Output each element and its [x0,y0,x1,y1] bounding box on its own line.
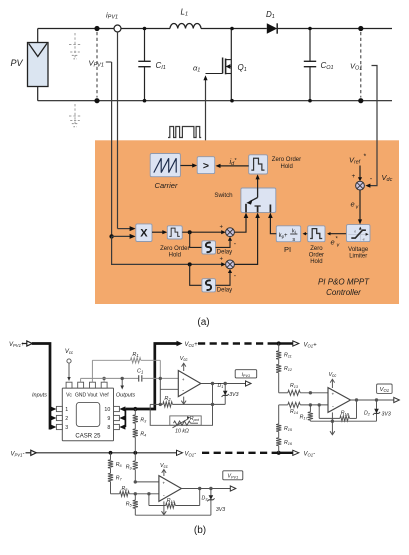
wire V_O1+ dashed bus [198,342,293,344]
node feedback left [159,403,162,406]
pin Vc [66,382,72,398]
block Delay1 [202,241,216,254]
wire R1 row corner down [159,360,161,378]
V_O1 sense dashed line [360,32,362,98]
svg-text:VO1-: VO1- [185,451,197,457]
wire i_PV1 sense to controller [118,32,136,231]
svg-text:L1: L1 [181,8,189,18]
svg-text:R6: R6 [116,462,123,468]
wire U2 bottom rail [310,420,376,423]
svg-text:R13: R13 [290,383,299,389]
svg-text:2: 2 [65,416,68,422]
label 3V3 D1 [229,392,238,398]
wire sum1 to switch [234,213,248,233]
label D2 [364,410,371,416]
svg-text:Hold: Hold [169,253,181,259]
resistor R5 [133,494,138,515]
wire to Delay1 [190,232,202,247]
terminal V_PV1+ [9,341,32,348]
op-amp U2 [328,388,351,413]
svg-text:Delay: Delay [217,249,232,255]
svg-text:+: + [220,225,224,231]
terminal V_PV1- [11,450,37,457]
label (b) [194,525,206,536]
svg-text:VO1: VO1 [380,387,389,393]
svg-text:VPV1-: VPV1- [11,451,25,457]
op-amp U1 [178,371,201,397]
Vcc supply circle (CASR) [65,349,74,381]
ground U1 [181,397,186,405]
svg-text:D2: D2 [364,410,371,416]
sum junction sum1 [226,228,235,237]
wire Delay1 to sum1 [216,237,233,248]
node top-right junction [358,26,363,31]
svg-text:R5: R5 [126,502,133,508]
label C1 [137,369,143,375]
PV module PV [11,43,49,87]
label CASR 25 [75,434,101,440]
label Voltage Limiter [348,247,369,260]
svg-text:R7: R7 [116,476,123,482]
label R16 [284,440,293,446]
wire switch to ZOH1 [256,174,260,188]
label Vdc [382,173,393,183]
wire to Delay2 [190,264,202,285]
block multiplier X [136,224,152,242]
label D1 [266,10,275,20]
wire carrier to comparator [180,163,197,167]
svg-text:*: * [364,154,367,161]
label R6 [116,462,123,468]
current sensor i_PV1 [114,25,121,32]
svg-text:8: 8 [107,425,110,431]
resistor R7 [108,473,113,494]
resistor R12 [276,364,281,392]
wire sum2 to switch [234,213,260,265]
svg-text:R14: R14 [290,409,298,415]
potentiometer Rpot [173,416,199,428]
label R18 [341,411,350,417]
terminal V_O1+ right [293,341,317,349]
label D1 [218,383,224,389]
node U1 out junction [211,382,214,406]
callout box V_PV1 [223,471,243,480]
svg-text:VPV1: VPV1 [227,474,238,480]
pin 3 (left) [50,424,68,431]
label R12 [284,366,293,372]
pin GND [75,382,87,398]
svg-text:PI: PI [284,245,291,254]
V_PV1 sense dashed line [96,32,98,98]
wire PV to top rail [37,29,39,101]
svg-text:(b): (b) [194,525,206,536]
label 3V3 D2 [382,412,391,418]
wire VO1+ to divider [277,341,281,351]
svg-text:D1: D1 [266,10,275,20]
wire V sense down branch [112,236,226,266]
probe ground upper (grey dashed) [69,33,81,59]
wire V_PV1- rail [36,452,176,454]
svg-text:CI1: CI1 [156,61,166,71]
svg-text:+: + [162,482,165,487]
label minus Vdc [370,174,373,183]
resistor R6 [108,453,113,473]
svg-text:Vc: Vc [66,393,72,399]
node plus row U2 [309,391,312,394]
svg-text:10: 10 [104,407,110,413]
potentiometer Rpot box [170,416,201,425]
svg-text:10 kΩ: 10 kΩ [175,429,189,435]
wire Delay2 to sum2 [216,269,233,285]
IC CASR 25 core window [76,402,100,426]
label Rpot [190,416,200,422]
svg-text:Zero Order: Zero Order [160,246,189,252]
small junction dots on rails [143,27,312,103]
svg-text:VPV1: VPV1 [89,59,104,69]
node rail junction main [133,451,137,455]
node V branch junction [188,262,192,266]
svg-text:R8: R8 [121,486,128,492]
resistor R13 [279,390,328,395]
wire top rail [38,28,392,30]
svg-text:3V3: 3V3 [216,507,225,513]
Vcc supply U2 [328,372,337,388]
svg-text:e: e [351,200,355,209]
svg-text:Vcc: Vcc [160,463,169,469]
svg-text:Limiter: Limiter [349,254,367,260]
block PI [276,226,300,243]
gate drive wire alpha1 [203,75,207,156]
svg-text:+: + [331,392,334,397]
svg-text:CASR 25: CASR 25 [75,434,101,440]
svg-text:Vref: Vref [100,393,110,399]
svg-text:R10: R10 [167,498,176,504]
svg-text:α1: α1 [193,64,200,74]
svg-text:e: e [331,238,335,247]
resistor R9 [133,453,138,482]
inductor L1 [170,24,201,29]
label Zero Order Hold (top) [272,157,301,170]
node R3 tap [133,407,137,411]
svg-text:Delay: Delay [217,288,232,294]
svg-text:R18: R18 [341,411,350,417]
label i_PV1 [106,11,118,21]
pin 10 (right) [104,406,125,413]
wire pins 8-9-10 bus [124,409,126,427]
wire limiter to ZOH3 [327,232,347,235]
label R3 [140,418,147,424]
svg-text:>: > [203,160,209,172]
diode D2 zener 3V3 [373,400,380,421]
label Q1 [238,63,247,73]
svg-text:-: - [163,493,165,499]
svg-text:e: e [354,230,356,234]
label Zero Order Hold (mid) [160,246,189,259]
svg-text:+: + [352,173,356,180]
wire PI to switch [268,213,276,234]
wire id* ZOH1 to comparator [216,164,249,168]
label R14 [290,409,298,415]
label R11 [284,353,292,359]
label R2 [164,396,171,402]
node plus row junction [134,480,137,483]
terminal V_O1 out [394,397,400,402]
label Switch [214,192,233,199]
wire V_O1 sense to controller [365,66,377,188]
node bottom-right junction [358,98,363,103]
node rail junction R6 [109,451,113,455]
pin 2 (left) [50,415,68,422]
block Switch [241,188,276,212]
svg-text:Inputs: Inputs [32,393,47,399]
capacitor C1 [81,375,179,381]
svg-text:(a): (a) [197,317,209,328]
wire U1 output [201,383,246,385]
wire X to ZOH2 [152,230,167,234]
node top-left junction [94,26,99,31]
feedback loop U1 [150,404,212,425]
Vcc supply U1 [180,356,189,371]
callout box VO1 [377,384,393,393]
block Delay2 [202,279,216,292]
label alpha1 [193,64,200,74]
block Zero Order Hold ZOH3 [308,226,325,242]
label CI1 [156,61,166,71]
wire sensor output thick [125,344,176,410]
node minus row U2 [309,403,321,406]
PWM pulse waveform [168,127,201,138]
svg-text:R1: R1 [132,352,138,358]
svg-text:3: 3 [65,425,68,431]
node V sense junction [109,234,135,239]
label ev* [331,237,341,249]
svg-text:VO1+: VO1+ [185,342,199,348]
sum junction Vref-Vdc [356,181,365,190]
svg-text:iPV1: iPV1 [106,11,118,21]
resistor R11 [276,351,281,365]
svg-text:R17: R17 [300,414,309,420]
svg-text:Rpot: Rpot [190,416,200,422]
svg-text:3V3: 3V3 [229,392,238,398]
svg-text:GND: GND [75,393,87,399]
label V_O1 [350,62,362,72]
svg-text:R15: R15 [284,426,293,432]
svg-text:CO1: CO1 [321,61,334,71]
label Outputs [116,393,136,399]
feedback R18 loop [319,400,356,421]
label Vref* [349,154,367,166]
svg-text:Order: Order [309,252,324,258]
Vcc supply U3 [160,463,169,476]
wire ZOH3 to PI [303,232,308,235]
svg-text:Hold: Hold [281,164,293,170]
svg-text:9: 9 [107,416,110,422]
svg-text:-e: -e [362,237,365,241]
node C1 row junction [159,377,162,380]
label R9 [126,465,133,471]
svg-text:ki: ki [292,228,296,234]
label R15 [284,426,293,432]
pin Vout [87,382,98,398]
label D3 [202,496,209,502]
terminal V_O1- mid [177,450,197,457]
wire V_O1- dashed bus [202,452,293,454]
capacitor CI1 [138,29,150,101]
wire U2 output [351,399,394,401]
diode D3 zener 3V3 [207,489,214,516]
wire sum to limiter [358,190,362,224]
label R4 [140,432,146,438]
svg-text:D3: D3 [202,496,209,502]
callout box iPV1 [235,370,257,378]
svg-text:R4: R4 [140,432,146,438]
block Voltage Limiter [347,225,371,242]
svg-text:Vcc: Vcc [65,349,74,355]
svg-text:+: + [182,378,185,383]
probe ground lower (grey dashed) [69,104,81,127]
resistor R16 [276,432,281,446]
svg-text:kp+: kp+ [279,233,288,239]
label Zero Order Hold (right) [309,246,324,265]
IC CASR 25 body [62,388,113,441]
label (a) [197,317,209,328]
svg-text:+: + [220,257,224,263]
svg-text:Switch: Switch [214,192,233,199]
resistor R4 [133,429,138,453]
svg-text:PV: PV [11,58,24,68]
label R8 [121,486,128,492]
label Carrier [155,181,178,190]
wire U3 ground rail [135,514,211,516]
label ev [351,200,360,211]
diode D1 zener 3V3 [222,382,229,405]
wire bottom rail [38,100,392,102]
label PI [284,245,291,254]
resistor R14 [279,402,328,407]
outputs pointer arrow [120,377,124,390]
op-amp U3 [159,476,182,502]
ground U3 [162,501,167,514]
label CO1 [321,61,334,71]
wire minus input U1 [160,378,178,404]
svg-text:Zero Order: Zero Order [272,157,301,163]
svg-text:Vcc: Vcc [180,356,189,362]
svg-text:R16: R16 [284,440,293,446]
pin 8 (right) [107,424,125,431]
controller box PI P&O MPPT (orange) [95,140,399,304]
label plus sum2 [220,257,224,263]
ground U2 [330,412,335,434]
node minus row junction [134,492,151,495]
label 3V3 D3 [216,507,225,513]
svg-text:Outputs: Outputs [116,393,136,399]
resistor R8 [111,491,159,496]
terminal V_O1+ left [177,341,199,348]
wire plus input U3 [135,481,159,483]
wire Vref to sum [358,166,362,182]
resistor R1 [92,358,160,363]
label R13 [290,383,299,389]
svg-text:iPV1: iPV1 [242,372,250,378]
label R10 [167,498,176,504]
pin Vref [100,382,110,398]
label minus sum2 [234,273,237,280]
svg-text:R3: R3 [140,418,147,424]
label R5 [126,502,133,508]
svg-text:VPV1+: VPV1+ [9,342,25,348]
label R7 [116,476,123,482]
transistor Q1 MOSFET [206,29,232,101]
pin 9 (right) [107,415,125,422]
label minus sum1 [234,241,237,248]
comparator block &gt; [197,157,215,174]
svg-text:R9: R9 [126,465,133,471]
capacitor CO1 [304,29,316,101]
diode D1 [267,23,277,33]
terminal V_PV1 out [230,486,236,491]
pin 1 (left) [50,406,68,413]
label plus Vref [352,173,356,180]
label V_PV1 [89,59,104,69]
svg-text:VO1+: VO1+ [304,343,318,349]
svg-text:Q1: Q1 [238,63,247,73]
label 10 kOhm [175,429,189,435]
wire Vout pin to R1 row [91,360,93,382]
svg-text:D1: D1 [218,383,224,389]
svg-text:-: - [182,388,184,394]
svg-text:Carrier: Carrier [155,181,178,190]
svg-text:C1: C1 [137,369,143,375]
feedback R10 loop [149,489,200,509]
label plus sum1 [220,225,224,231]
svg-text:-: - [332,404,334,410]
node U2 out junctions [355,398,378,401]
svg-text:R2: R2 [164,396,171,402]
wire Vref pin stub [102,377,105,383]
svg-text:Vcc: Vcc [328,372,337,378]
label L1 [181,8,189,18]
label Delay1 [217,249,232,255]
wire GND pin to C1 row [80,378,82,382]
node bottom-left junction [94,98,99,103]
wire VO1- to divider [277,446,281,455]
label Inputs [32,393,47,399]
resistor R15 [276,405,281,432]
svg-text:s: s [292,237,295,243]
svg-text:Hold: Hold [310,259,322,265]
resistor R2 [150,402,225,407]
svg-text:R12: R12 [284,366,293,372]
svg-text:1: 1 [65,407,68,413]
wire V_PV1+ thick [32,344,50,430]
node power junction [188,230,192,234]
block Zero Order Hold ZOH2 [167,226,182,239]
terminal iPV1 out [246,381,252,386]
resistor R17 [308,405,313,421]
svg-text:PI P&O MPPT: PI P&O MPPT [318,278,370,287]
svg-text:VO1-: VO1- [304,452,316,458]
label PI P&O MPPT Controller [318,278,370,298]
svg-text:Voltage: Voltage [348,247,369,253]
wire U3 output [181,488,230,490]
svg-text:Zero: Zero [310,246,323,252]
wire V_PV1 sense to controller [106,62,112,236]
svg-text:R11: R11 [284,353,292,359]
wire ZOH2 to sum1 [182,230,226,234]
block Zero Order Hold ZOH1 [249,155,268,174]
svg-text:X: X [140,228,148,240]
terminal V_O1- right [293,450,315,457]
